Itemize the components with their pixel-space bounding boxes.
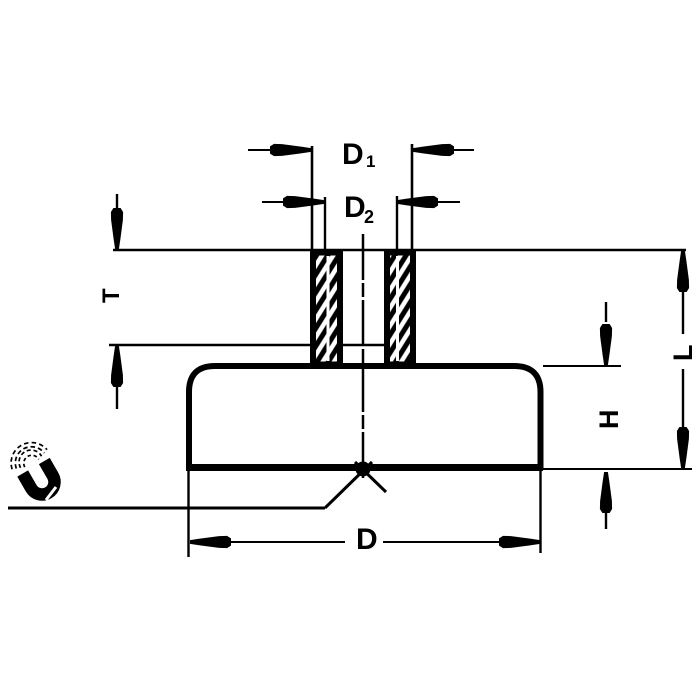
svg-text:D: D bbox=[344, 191, 366, 224]
dimension D1 line right segment bbox=[434, 149, 474, 151]
D2 extension line right bbox=[396, 196, 398, 250]
svg-text:T: T bbox=[98, 288, 125, 303]
L bottom arrow (pointing down) bbox=[677, 427, 689, 468]
D1 extension line left bbox=[311, 146, 314, 250]
H top arrow (pointing down) bbox=[600, 324, 612, 365]
D right arrow (pointing right) bbox=[499, 536, 540, 548]
label D1 bbox=[98, 138, 698, 556]
pot body outline bbox=[189, 366, 541, 470]
top extension line (bushing top plane) bbox=[113, 249, 686, 251]
L dimension line upper bbox=[682, 290, 684, 334]
H bottom arrow (pointing up) bbox=[600, 472, 612, 513]
leader junction blob bbox=[356, 462, 371, 477]
H bottom arrow tail bbox=[605, 513, 607, 529]
D1 extension line right bbox=[411, 144, 414, 250]
H top arrow tail bbox=[605, 302, 607, 322]
T lower extension line (thread depth plane) bbox=[109, 344, 416, 346]
svg-text:L: L bbox=[668, 345, 698, 362]
D left arrow (pointing left) bbox=[190, 536, 231, 548]
D2 extension line left bbox=[324, 197, 326, 250]
D dimension line right segment bbox=[383, 541, 499, 543]
leader line horizontal bbox=[8, 507, 325, 510]
D extension line right bbox=[539, 470, 541, 553]
D1 left arrow bbox=[270, 144, 311, 156]
leader line diagonal bbox=[325, 462, 372, 508]
magnet pole gap bbox=[46, 487, 56, 500]
pot bottom extension line right bbox=[543, 468, 692, 470]
svg-text:D: D bbox=[356, 523, 378, 556]
T top arrow (pointing down) bbox=[111, 208, 123, 249]
svg-text:H: H bbox=[594, 410, 624, 430]
T bottom arrow tail bbox=[116, 386, 118, 409]
L top arrow (pointing up) bbox=[677, 251, 689, 292]
D2 left arrow bbox=[283, 196, 324, 208]
dimension D2 line left segment bbox=[262, 201, 302, 203]
svg-text:1: 1 bbox=[366, 152, 375, 171]
D1 right arrow bbox=[413, 144, 454, 156]
thread seam right bbox=[396, 256, 399, 361]
center line (axis) bbox=[362, 234, 365, 478]
svg-text:D: D bbox=[342, 138, 364, 171]
D extension line left bbox=[187, 470, 189, 557]
pot top extension line right (H upper) bbox=[543, 365, 621, 367]
pot bottom thick line bbox=[186, 464, 543, 471]
D2 right arrow bbox=[397, 196, 438, 208]
dimension D2 line right segment bbox=[418, 201, 460, 203]
D dimension line left segment bbox=[231, 541, 345, 543]
bushing right wall (hatched) bbox=[387, 253, 413, 365]
leader cross stroke bbox=[355, 462, 386, 492]
svg-text:2: 2 bbox=[364, 207, 374, 227]
dimension D1 line left segment bbox=[248, 149, 290, 151]
thread seam left bbox=[327, 256, 330, 361]
bushing left wall (hatched) bbox=[313, 253, 340, 365]
T bottom arrow (pointing up) bbox=[111, 346, 123, 387]
L dimension line lower bbox=[682, 369, 684, 430]
dimension T top arrow tail bbox=[116, 194, 118, 212]
magnet icon (horseshoe) bbox=[4, 435, 66, 502]
